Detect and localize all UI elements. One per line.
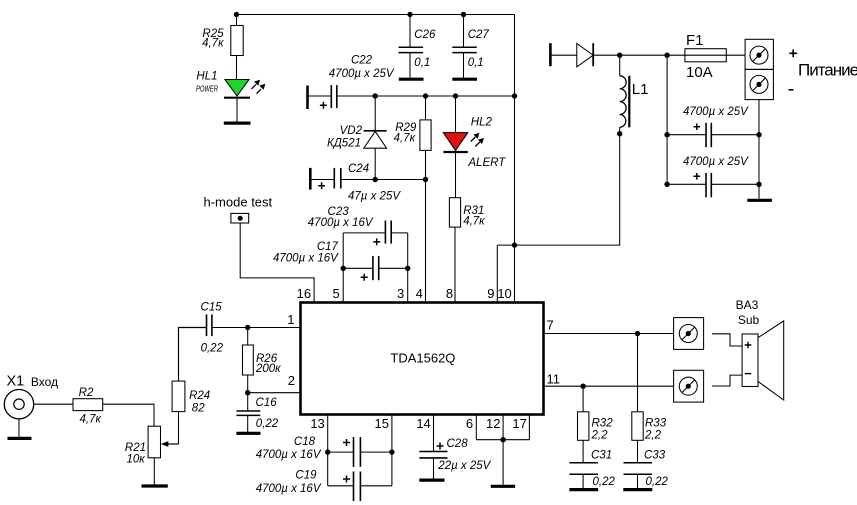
node C24/R29 [423,177,428,182]
wire second rail [337,95,515,97]
capacitor C16 [247,393,249,411]
wire top +12V rail [237,14,515,16]
svg-text:22µ x 25V: 22µ x 25V [437,460,491,472]
filter capacitor C_a 4700µ x 25V [667,134,759,136]
capacitor C31 [569,462,598,464]
svg-text:0,22: 0,22 [646,476,669,488]
svg-text:10к: 10к [126,454,145,466]
capacitor C17 [343,267,408,269]
wire to speaker plus [712,334,742,346]
svg-text:13: 13 [310,416,324,431]
svg-text:Sub: Sub [738,313,760,327]
supply input bar [549,43,552,66]
capacitor C33 [624,462,653,464]
node C18 right [389,449,394,454]
resistor R24 [178,412,180,444]
wire pin 15 [391,415,393,453]
svg-text:3: 3 [397,286,404,301]
wire pins 6/12/17 join [476,415,529,440]
ground below R21 [142,484,168,487]
fuse F1 [685,49,726,62]
svg-text:h-mode test: h-mode test [204,194,273,209]
svg-text:4700µ x 16V: 4700µ x 16V [256,449,322,461]
svg-text:1: 1 [287,312,294,327]
svg-text:12: 12 [486,416,500,431]
capacitor C26 [409,15,411,48]
potentiometer R21 [148,426,160,458]
capacitor C27 [463,15,465,48]
svg-text:14: 14 [416,416,430,431]
svg-text:47µ x 25V: 47µ x 25V [348,190,401,202]
capacitor C19 [328,452,392,486]
svg-text:Питание: Питание [798,60,857,79]
ground below C27 [452,78,477,81]
label plus [789,49,797,57]
node top rail at C27 [461,12,466,17]
resistor R25 [236,15,238,26]
node pin1/R26 [245,325,250,330]
LED HL1 (green) [225,80,249,97]
node pin11/R32 [580,384,585,389]
svg-text:2,2: 2,2 [644,429,662,441]
wire C23/C17 left leg to pin 5 [342,233,344,303]
svg-text:4,7к: 4,7к [79,413,101,425]
svg-text:2: 2 [288,373,295,388]
svg-text:C28: C28 [447,438,469,450]
svg-text:C33: C33 [644,449,666,461]
node top rail at C26 [407,12,412,17]
svg-text:0,1: 0,1 [414,57,430,69]
resistor R31 [449,198,460,227]
svg-text:C19: C19 [295,469,317,481]
svg-text:82: 82 [192,403,205,415]
svg-text:R33: R33 [645,417,667,429]
node C24/VD2 [373,177,378,182]
svg-text:0,22: 0,22 [201,342,224,354]
svg-text:5: 5 [332,286,339,301]
svg-text:F1: F1 [686,32,704,49]
svg-text:8: 8 [446,286,453,301]
svg-text:11: 11 [547,371,561,386]
svg-text:6: 6 [466,416,473,431]
svg-text:10A: 10A [686,64,713,81]
wire pin 7 to output [544,333,674,335]
capacitor C24 [309,168,312,190]
svg-text:C31: C31 [591,449,612,461]
resistor R33 [637,334,639,412]
ground below HL1 [224,121,251,124]
wire h-mode test to pin 16 [240,223,314,303]
svg-text:R2: R2 [79,387,94,399]
wire minus terminal down [758,100,760,199]
svg-text:4700µ x 25V: 4700µ x 25V [683,156,749,168]
ground below C26 [399,78,424,81]
LED HL2 (red) [455,96,457,133]
wire pin 9 jog [497,245,514,302]
node C17 right [405,266,410,271]
wire pin 13 [327,415,329,453]
wire to speaker minus [712,375,742,386]
svg-text:9: 9 [487,286,494,301]
ground below X1 [18,419,20,438]
svg-text:КД521: КД521 [327,137,361,149]
wire R2 to R21 [103,404,154,426]
svg-text:4,7к: 4,7к [394,133,416,145]
ground below C33 [623,488,652,491]
svg-text:4,7к: 4,7к [202,37,224,49]
svg-text:4: 4 [416,286,423,301]
power terminal minus [745,69,773,99]
svg-text:C24: C24 [348,163,369,175]
ground below C28 [419,479,444,482]
svg-text:HL1: HL1 [196,71,217,83]
svg-text:4700µ x 16V: 4700µ x 16V [273,253,339,265]
svg-text:C16: C16 [256,397,278,409]
wire diode to fuse [593,54,745,56]
svg-text:C23: C23 [328,206,350,218]
capacitor C23 [343,232,408,234]
svg-text:0,1: 0,1 [468,57,484,69]
wire L1 to pins 9/10 [515,127,620,245]
node second rail at HL2 [453,93,458,98]
wire C23/C17 right leg to pin 3 [407,233,409,303]
wire X1 to R2 [34,403,73,405]
output terminal top [674,318,704,350]
node C17 left [341,266,346,271]
ground below pin 12 [491,485,515,488]
wire pin 11 to output [544,385,674,387]
svg-text:R21: R21 [125,442,146,454]
svg-text:7: 7 [547,318,554,333]
output terminal bottom [674,370,704,402]
svg-text:HL2: HL2 [471,116,493,128]
filter capacitor C_b 4700µ x 25V [667,183,759,185]
ground below minus column [747,199,772,202]
connector X1 Вход [4,390,33,419]
svg-text:R24: R24 [189,390,210,402]
svg-text:10: 10 [497,286,511,301]
svg-text:Вход: Вход [31,375,58,389]
svg-text:VD2: VD2 [340,125,363,137]
resistor R2 [73,399,103,411]
wire filter column [666,55,668,184]
node pin7/R33 [635,331,640,336]
svg-text:X1: X1 [7,374,25,390]
svg-text:L1: L1 [632,81,649,98]
svg-text:4700µ x 25V: 4700µ x 25V [329,68,395,80]
node L1 top [617,53,622,58]
svg-text:0,22: 0,22 [256,418,279,430]
svg-text:C15: C15 [201,302,223,314]
inductor L1 [619,55,621,76]
speaker BA3 Sub [742,334,758,387]
svg-text:200к: 200к [255,363,281,375]
power terminal plus [745,39,773,69]
svg-text:C17: C17 [317,241,339,253]
ground below C16 [236,432,260,435]
svg-text:C27: C27 [468,29,490,41]
resistor R29 [425,96,427,120]
label minus [789,89,794,91]
capacitor C18 [328,451,392,453]
svg-text:2,2: 2,2 [591,429,609,441]
svg-text:C26: C26 [414,29,436,41]
svg-text:4700µ x 16V: 4700µ x 16V [308,217,374,229]
svg-text:POWER: POWER [196,84,218,94]
svg-text:R32: R32 [592,417,614,429]
node pin2/C16 [245,390,250,395]
svg-text:4700µ x 25V: 4700µ x 25V [683,106,749,118]
node supply to pins 9/10 [512,242,517,247]
svg-text:ALERT: ALERT [467,157,506,169]
svg-text:16: 16 [297,286,311,301]
wire from top rail corner down to supply node [514,15,516,303]
capacitor C28 [433,415,435,452]
wire pin 2 [248,392,301,394]
svg-text:4700µ x 16V: 4700µ x 16V [256,483,322,495]
diode VD2 КД521 [374,96,376,131]
node filter column top [664,53,669,58]
node second rail at R29 [423,93,428,98]
svg-text:C22: C22 [351,55,373,67]
svg-text:4,7к: 4,7к [463,215,485,227]
node second rail at supply drop [512,93,517,98]
svg-text:BA3: BA3 [736,298,759,312]
node top rail at R25 [234,12,239,17]
op-amp U1 TDA1562Q [301,303,544,415]
svg-text:C18: C18 [294,436,316,448]
node second rail at VD2 [373,93,378,98]
svg-text:TDA1562Q: TDA1562Q [390,350,455,365]
node C18 left [325,449,330,454]
svg-text:15: 15 [375,416,389,431]
svg-text:0,22: 0,22 [593,476,616,488]
diode VD1 [552,54,577,56]
capacitor C22 [306,86,309,110]
node L1 bottom [617,131,622,136]
resistor R26 [247,328,249,346]
ground below C31 [569,488,598,491]
resistor R32 [582,386,584,412]
svg-text:17: 17 [512,416,526,431]
